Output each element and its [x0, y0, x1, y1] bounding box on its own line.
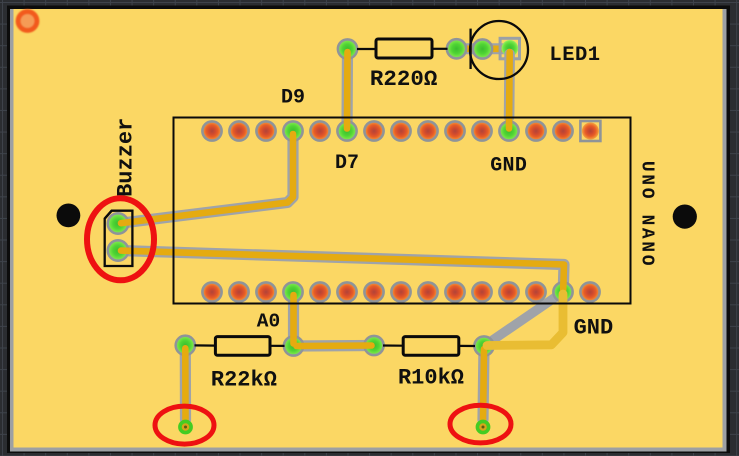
- pad red: [310, 121, 329, 140]
- pad red: [391, 282, 410, 301]
- wire A0 down (outline): [288, 292, 299, 346]
- pad D7 green: [337, 121, 356, 140]
- pad buzzer 1: [108, 213, 128, 233]
- pad red: [472, 121, 491, 140]
- pad buzzer 2: [108, 240, 128, 260]
- pad red: [526, 121, 545, 140]
- pad red: [391, 121, 410, 140]
- svg-text:Buzzer: Buzzer: [113, 118, 138, 197]
- pad LED cathode square: [500, 38, 519, 59]
- wire R220 to LED link: [457, 43, 511, 54]
- wire D7 to R220 (outline): [341, 49, 353, 131]
- pad A0 green: [283, 282, 302, 301]
- resistor R10k body: [383, 337, 475, 356]
- svg-text:UNO NANO: UNO NANO: [636, 161, 656, 268]
- svg-text:D7: D7: [335, 152, 359, 175]
- wire R22k left pad to via (gold): [182, 348, 189, 421]
- pad bottom chain 1: [176, 336, 195, 355]
- pad red: [472, 282, 491, 301]
- svg-text:LED1: LED1: [549, 44, 600, 67]
- pad red: [499, 282, 518, 301]
- annotation red ellipse via right: [450, 405, 511, 443]
- pad red: [445, 121, 464, 140]
- wire D9 to buzzer pad1 (outline): [118, 131, 293, 224]
- svg-text:A0: A0: [257, 310, 280, 332]
- pad red: [553, 121, 572, 140]
- wire gray outlines group: [118, 49, 564, 420]
- pad red: [445, 282, 464, 301]
- pad R220 left: [338, 39, 357, 58]
- pad GND2 green: [553, 282, 572, 301]
- svg-text:D9: D9: [281, 86, 305, 109]
- resistor R22k body: [195, 337, 285, 356]
- IC UNO NANO outline: [174, 118, 631, 304]
- via bottom-right: [477, 421, 488, 432]
- pad red: [256, 282, 275, 301]
- pad GND green: [499, 121, 518, 140]
- annotation red ellipse buzzer: [87, 198, 154, 280]
- wire bottom chain (outline): [294, 340, 375, 352]
- wire thick gold GND net: [487, 294, 563, 346]
- pad red: [256, 121, 275, 140]
- pad red: [337, 282, 356, 301]
- pad LED anode: [473, 39, 492, 58]
- pad bottom chain 4: [474, 336, 493, 355]
- pad bottom chain 3: [364, 336, 383, 355]
- via bottom-left: [180, 421, 191, 432]
- LED1 outline: [470, 21, 528, 79]
- mounting hole left: [57, 204, 81, 228]
- pad square pin1: [580, 121, 600, 141]
- resistor R220 body: [357, 39, 448, 58]
- wire R10k right pad to via (gold): [483, 349, 484, 421]
- pad red: [310, 282, 329, 301]
- pad red: [202, 121, 221, 140]
- wire D7 to R220 (gold): [344, 52, 351, 129]
- wire bottom chain (gold): [297, 342, 372, 349]
- svg-text:GND: GND: [574, 316, 614, 341]
- pad red: [418, 282, 437, 301]
- wire LED cathode to GND top: [504, 52, 515, 129]
- svg-text:R220Ω: R220Ω: [370, 66, 438, 92]
- svg-text:R10kΩ: R10kΩ: [398, 366, 464, 391]
- wire A0 down (gold): [290, 295, 297, 344]
- wire buzzer pad2 to GND pad (gold): [121, 251, 564, 290]
- wire gray thick diagonal GND to R10k: [484, 292, 563, 346]
- pad D9 green: [283, 121, 302, 140]
- wire R10k right pad to via (outline): [483, 346, 484, 420]
- pad red: [229, 121, 248, 140]
- buzzer outline: [105, 211, 133, 266]
- pads top row: [202, 121, 600, 141]
- wire buzzer pad2 to GND pad (outline): [118, 251, 564, 293]
- pads bottom row: [202, 282, 599, 301]
- svg-text:R22kΩ: R22kΩ: [211, 367, 277, 392]
- svg-text:GND: GND: [490, 155, 527, 178]
- wire D9 to buzzer pad1 (gold): [121, 134, 293, 223]
- pad red: [364, 282, 383, 301]
- pad red: [418, 121, 437, 140]
- pad red: [229, 282, 248, 301]
- mounting hole right: [673, 205, 697, 229]
- gold cores group: [121, 52, 564, 421]
- annotation red ellipse via left: [155, 406, 214, 444]
- pad bottom chain 2: [284, 336, 303, 355]
- pad red: [580, 282, 599, 301]
- fiducial orange circle: [16, 9, 40, 33]
- pad R220 right: [447, 39, 466, 58]
- pad red: [202, 282, 221, 301]
- wire R22k left pad to via (outline): [180, 345, 191, 419]
- pad red: [526, 282, 545, 301]
- pad red: [364, 121, 383, 140]
